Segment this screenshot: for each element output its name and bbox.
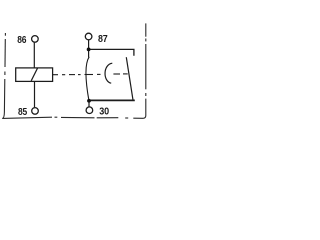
svg-text:86: 86 (17, 35, 26, 46)
svg-text:30: 30 (99, 106, 109, 117)
svg-text:87: 87 (98, 34, 108, 45)
svg-text:85: 85 (18, 107, 27, 118)
